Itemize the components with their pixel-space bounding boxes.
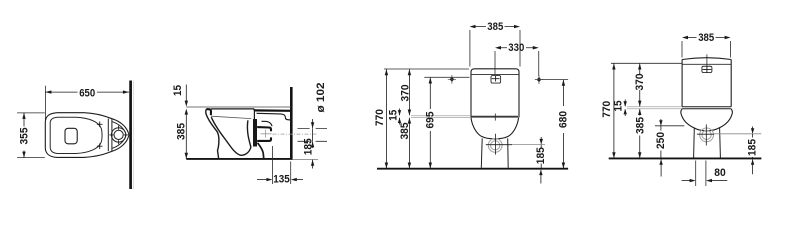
dimension 385 line (185, 115, 187, 159)
svg-text:770: 770 (601, 101, 613, 118)
dimension 15 arrow down (185, 101, 188, 107)
trap cross horizontal (486, 144, 512, 146)
dimension 695 top extension (424, 76, 469, 78)
svg-text:695: 695 (424, 112, 436, 129)
dimension 330 line (501, 47, 533, 49)
seat line extensions gray (411, 116, 470, 118)
dimension 135 line left with arrow (257, 179, 267, 181)
svg-text:330: 330 (508, 42, 524, 54)
dimension 385 top extension right (730, 41, 732, 58)
bowl opening (65, 128, 77, 144)
svg-text:680: 680 (557, 111, 569, 128)
rear foot edge (258, 143, 264, 159)
cistern body (471, 69, 519, 118)
dimension 650 arrow left (45, 90, 51, 93)
flush button cross (703, 66, 712, 73)
dimension 15 line (185, 85, 187, 102)
outlet circle outer (111, 128, 125, 142)
dimension 385 arrow down (185, 153, 188, 159)
flush button (491, 76, 501, 84)
svg-text:80: 80 (714, 167, 726, 179)
dimension 385 top line (476, 26, 515, 28)
flange chord lines (107, 119, 109, 152)
dimension 250 extension (655, 125, 684, 127)
shelf to wall thick line (254, 109, 291, 112)
bowl under cistern (471, 118, 519, 139)
dimension 135 extension left (272, 146, 274, 184)
rim band bottom (682, 108, 731, 110)
dimension 185 line (540, 137, 542, 144)
bowl outline (681, 109, 733, 131)
cistern center tick (706, 54, 708, 66)
dimension 770 top extension (384, 68, 469, 70)
cistern lid top (682, 58, 731, 60)
dimension 680 line (562, 80, 564, 106)
dimension 770 top extension (611, 62, 682, 64)
trap cross horizontal (697, 133, 714, 135)
bowl front lip (206, 109, 211, 115)
rim extensions gray (627, 107, 682, 109)
dimension 355 extension line top (17, 112, 45, 114)
floor line (377, 168, 568, 170)
svg-text:385: 385 (399, 123, 411, 140)
pipe upper bend line (262, 121, 273, 126)
outlet centerline dash (273, 133, 319, 135)
svg-text:370: 370 (399, 85, 411, 102)
trap circle outer (700, 128, 714, 142)
trap circle inner (491, 141, 500, 150)
rim band top (682, 106, 731, 108)
outlet pipe top wall (257, 127, 271, 131)
dimension 250 line (660, 119, 662, 125)
svg-text:385: 385 (698, 32, 714, 44)
bowl front profile (206, 109, 219, 159)
fixing cross top (97, 122, 103, 128)
dimension 185 line (752, 127, 754, 134)
outlet center cross gray (261, 130, 272, 138)
outlet pipe bottom wall (257, 137, 271, 141)
svg-text:185: 185 (535, 147, 547, 164)
dimension 185 extension (512, 144, 545, 146)
dimension 185 below floor arrow (312, 160, 314, 169)
bowl outer outline (plan) (45, 113, 112, 158)
VIEW3 front view with cistern (374, 21, 569, 184)
pedestal left edge (693, 128, 696, 158)
floor line (186, 158, 292, 160)
dimension 355 arrow bottom (22, 152, 25, 158)
flush button cross (492, 76, 500, 82)
wall (side) (290, 87, 293, 159)
svg-text:385: 385 (487, 21, 503, 33)
trap cross vertical (495, 134, 497, 155)
diameter 102 extension top (298, 127, 328, 129)
fixing cross bottom (97, 143, 103, 149)
dimension 385 arrow up (185, 109, 188, 115)
shelf underside step (257, 113, 292, 120)
bowl rim top line (211, 109, 254, 111)
bowl outlet bend dark bar (253, 119, 257, 147)
dimension 385 top extension right (519, 30, 521, 67)
svg-text:250: 250 (655, 132, 667, 149)
dimension 385 top line (688, 37, 725, 39)
dimension 135 line right with arrow (297, 179, 304, 181)
diameter 102 dim line (312, 119, 314, 128)
dimension 770 line (385, 69, 387, 168)
dimension 680 extension (542, 79, 569, 81)
dimension 770 line (613, 64, 615, 159)
flush button (702, 66, 712, 72)
svg-text:ø 102: ø 102 (315, 83, 327, 113)
VIEW1 plan view (17, 81, 134, 190)
dimension 15 line (399, 109, 401, 116)
svg-text:185: 185 (302, 138, 314, 155)
cistern lid bottom line (471, 73, 519, 75)
dimension 355 extension line bottom (17, 157, 45, 159)
VIEW4 side view with cistern (601, 32, 761, 186)
diameter 102 extension bottom (298, 140, 328, 142)
dimension 650 extension line (44, 86, 46, 121)
svg-text:15: 15 (388, 110, 400, 121)
trap cross vertical (705, 124, 707, 145)
dimension 15 line (624, 100, 626, 107)
dimension 330 extension left (494, 51, 496, 75)
dimension 80 line (682, 180, 691, 182)
svg-text:370: 370 (634, 74, 646, 91)
svg-text:385: 385 (634, 117, 646, 134)
floor line (609, 157, 762, 159)
trap circle inner (702, 130, 711, 139)
dimension 330 extension right (538, 51, 540, 76)
dimension 355 arrow top (22, 113, 25, 119)
dimension 650 arrow right (123, 90, 129, 93)
VIEW2 side section (172, 83, 327, 186)
trap circle outer (488, 139, 502, 153)
cistern sides (682, 60, 731, 107)
wall fixing diamond (537, 77, 542, 82)
dimension 185 extension (714, 133, 761, 135)
dimension 385 top extension left (681, 41, 683, 58)
svg-text:355: 355 (18, 128, 30, 145)
pedestal right edge (719, 128, 722, 158)
cistern center tick (494, 114, 496, 121)
pedestal right edge (507, 138, 510, 167)
flange bullet outer arc (112, 119, 129, 152)
wall (plan) (129, 81, 132, 190)
svg-text:385: 385 (175, 123, 187, 140)
pedestal left edge (480, 138, 483, 167)
cistern lid bottom line (682, 63, 731, 65)
bowl rear wall line (253, 109, 255, 120)
svg-text:135: 135 (273, 174, 290, 186)
bowl inner rim lower edge (211, 116, 251, 118)
svg-text:650: 650 (79, 87, 95, 99)
svg-text:770: 770 (374, 109, 386, 126)
cistern bottom band (471, 116, 518, 118)
seat top line (186, 106, 290, 108)
outlet circle tick marks (109, 126, 127, 145)
dimension 385 top extension left (469, 30, 471, 67)
dimension 80 extensions (696, 161, 706, 187)
wall edge light line (133, 81, 135, 190)
bowl basin interior (211, 117, 251, 155)
dimension chain 370-385 line (639, 64, 641, 75)
svg-text:15: 15 (172, 85, 184, 96)
flange bullet inner arc (112, 122, 126, 149)
outlet circle inner (114, 130, 123, 139)
dimension 135 extension right (290, 162, 292, 185)
svg-text:185: 185 (746, 139, 758, 156)
fixing diamond left (450, 77, 455, 82)
dimension 355 line (23, 113, 25, 127)
seat inner rim outline (50, 117, 102, 153)
dimension 695 line (429, 78, 431, 110)
svg-text:15: 15 (612, 101, 624, 112)
dimension chain 370-385 line (408, 69, 410, 115)
floor extension right of wall (293, 158, 318, 160)
dimension 650 line (45, 91, 77, 93)
